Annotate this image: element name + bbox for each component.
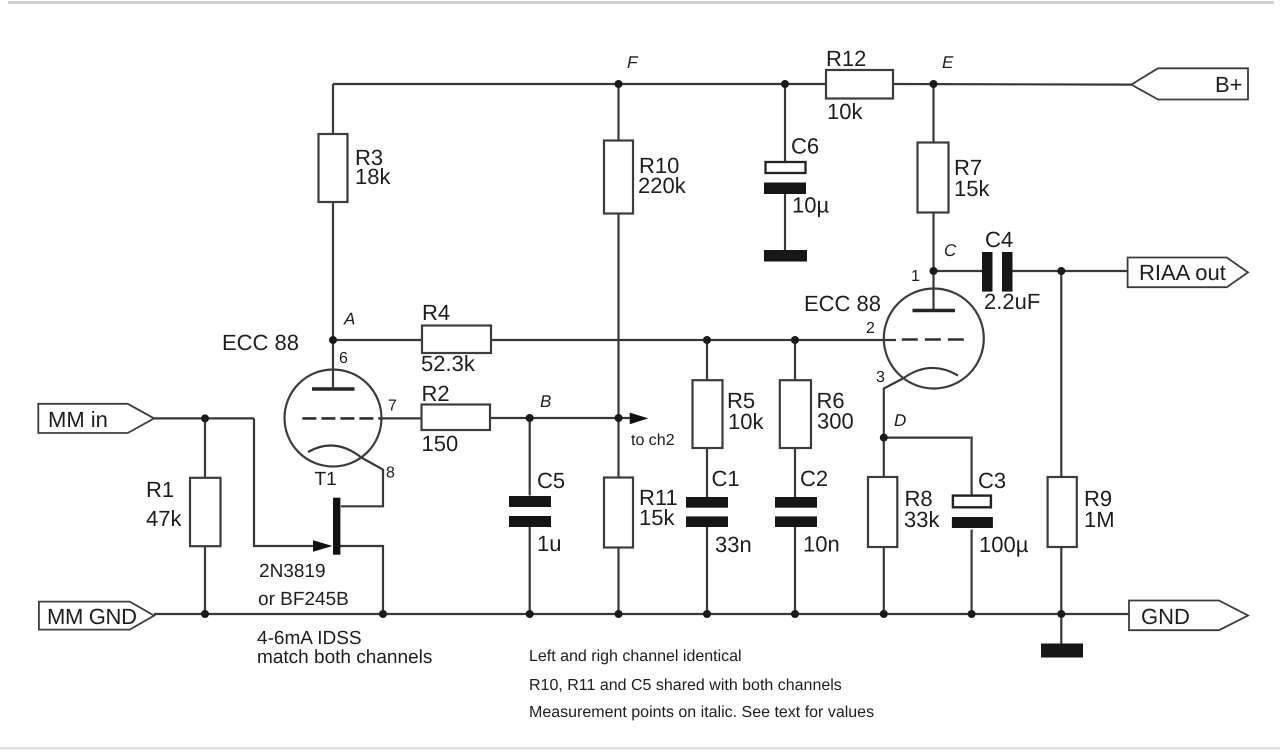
svg-text:2N3819: 2N3819 [259,561,326,582]
label R9 value [1084,486,1115,532]
wire R9 top lead [1060,271,1062,477]
label C6 value [791,134,829,218]
svg-text:Left and righ channel identica: Left and righ channel identical [529,648,742,665]
svg-text:E: E [942,53,954,72]
svg-text:100µ: 100µ [979,532,1029,557]
capacitor C4 [982,252,1013,292]
svg-text:to ch2: to ch2 [631,432,675,449]
connector B+ [1131,68,1248,99]
wire ground stub [1060,614,1062,645]
capacitor C1 [686,497,728,527]
wire R6 to C2 [794,448,796,497]
junction R6 top [791,336,799,344]
svg-text:1: 1 [911,268,920,285]
svg-text:10µ: 10µ [792,193,829,218]
svg-text:52.3k: 52.3k [421,351,476,376]
junction node B [526,414,534,422]
label C5 value [537,468,565,556]
wire R6 top lead [794,340,796,380]
label C3 value [978,468,1029,557]
svg-text:C4: C4 [985,227,1013,252]
resistor R12 [826,70,893,99]
ground symbol bottom right [1041,644,1083,658]
svg-text:R12: R12 [826,46,866,71]
wire C3 to ground rail [970,530,972,615]
wire cathode U2 to node D [884,368,958,438]
svg-text:T1: T1 [315,469,337,490]
wire R7 to node C [932,213,934,272]
wire node C to C4 [934,270,983,272]
svg-text:MM GND: MM GND [47,604,137,629]
svg-text:R4: R4 [422,300,450,325]
junction C2 ground [791,610,799,618]
svg-text:F: F [627,53,639,72]
connector MM in [38,404,154,433]
junction node D [880,434,888,442]
svg-text:or BF245B: or BF245B [258,589,349,610]
junction MM in / R1 [201,414,209,422]
triode U2 envelope [884,289,984,389]
label R4 value [421,300,476,376]
wire R2 to node B [490,417,530,419]
svg-text:2: 2 [866,320,875,337]
wire R1 bottom lead [204,546,206,614]
wire R9 bottom lead [1060,547,1062,614]
resistor R6 [780,380,811,448]
label R3 value [355,145,391,189]
svg-text:15k: 15k [639,505,675,530]
svg-text:ECC 88: ECC 88 [222,330,299,355]
wire node C to tube plate [932,271,934,310]
resistor R9 [1048,477,1077,547]
svg-text:Measurement points on italic.: Measurement points on italic. See text f… [529,704,874,721]
svg-text:150: 150 [422,431,459,456]
wire C6 to ground symbol [784,194,786,250]
anode of U2 [913,309,956,313]
wire node A to R4 [333,339,422,341]
wire R8 to ground rail [883,547,885,614]
wire source T1 to ground rail [340,546,383,614]
capacitor C2 [775,497,817,527]
label C1 value [712,466,752,557]
connector GND [1129,601,1248,631]
svg-text:C: C [944,241,957,260]
label R10 value [638,153,687,198]
svg-text:2.2uF: 2.2uF [984,289,1040,314]
capacitor C6 [764,162,806,194]
svg-text:C5: C5 [537,468,565,493]
svg-text:33n: 33n [715,532,752,557]
wire MM in rail [154,417,254,419]
arrow to ch2 [630,413,649,425]
svg-text:15k: 15k [954,176,990,201]
junction C3 ground [968,610,976,618]
label T1 type [258,561,349,610]
transistor T1 channel bar [333,498,340,555]
svg-text:10n: 10n [803,532,840,557]
svg-text:C6: C6 [791,134,819,159]
wire C2 to ground rail [794,527,796,614]
svg-text:C3: C3 [978,468,1006,493]
wire cathode U1 to drain T1 [308,446,383,507]
anode of U1 [312,387,355,391]
label C4 value [984,227,1040,314]
wire node A to tube plate [332,340,334,388]
wire B+ rail right segment [893,83,1132,86]
svg-text:R1: R1 [146,477,174,502]
capacitor C5 [509,496,551,527]
wire R4 to grid of U2 [491,339,896,341]
connector RIAA out [1128,258,1248,288]
svg-text:6: 6 [339,350,348,367]
wire node D to R8 [883,438,885,477]
svg-text:10k: 10k [728,409,764,434]
resistor R4 [422,326,491,354]
wire B+ rail left segment [333,83,826,85]
junction node C [930,267,938,275]
svg-text:R10, R11 and C5 shared with bo: R10, R11 and C5 shared with both channel… [529,677,842,694]
svg-text:C1: C1 [712,466,740,491]
svg-text:B: B [540,392,551,411]
svg-text:7: 7 [388,398,397,415]
wire C5 to ground rail [529,527,531,614]
svg-text:1M: 1M [1084,507,1115,532]
wire R10 to node B [617,214,619,419]
wire F to R10 [617,84,619,141]
svg-text:3: 3 [876,369,885,386]
svg-text:A: A [343,310,355,329]
capacitor C3 [952,496,993,528]
ground symbol under C6 [764,250,807,262]
wire R1 top lead [204,418,206,477]
wire C1 to ground rail [706,527,708,614]
svg-text:GND: GND [1141,604,1190,629]
resistor R10 [604,141,633,214]
label R12 value [826,46,866,124]
resistor R11 [604,478,633,548]
junction node F [615,80,623,88]
svg-text:RIAA out: RIAA out [1139,260,1226,285]
junction R8 ground [880,610,888,618]
wire node B to R11 [617,418,619,478]
wire ground rail [154,613,1129,615]
junction RIAA branch [1057,267,1065,275]
label R8 value [904,486,940,532]
junction T1 source ground [379,610,387,618]
svg-text:33k: 33k [904,507,940,532]
junction C1 ground [703,610,711,618]
svg-text:ECC 88: ECC 88 [804,291,881,316]
label R6 value [817,388,854,434]
junction R5 top [703,336,711,344]
wire E to R7 [932,84,934,143]
wire R5 to C1 [706,448,708,497]
junction node A [329,336,337,344]
wire R3 top lead [332,84,334,134]
svg-text:220k: 220k [638,173,687,198]
triode U1 envelope [285,370,382,467]
resistor R3 [319,134,348,202]
resistor R8 [868,477,897,547]
grid of U2 (dashed) [902,338,964,341]
wire gate of T1 [254,418,315,546]
svg-text:18k: 18k [355,164,391,189]
junction R9 ground [1057,610,1065,618]
svg-text:match both channels: match both channels [257,647,432,668]
svg-text:8: 8 [386,465,395,482]
junction node E [930,80,938,88]
resistor R2 [422,405,491,431]
junction C6 top [781,80,789,88]
label R11 value [639,485,678,530]
label T1 selection note [257,628,432,668]
wire R5 top lead [706,340,708,380]
svg-text:10k: 10k [827,99,863,124]
wire node B to ch2 arrow [530,417,631,419]
junction R1 ground [201,610,209,618]
junction R11 / to ch2 [615,414,623,422]
wire node B to C5 [529,418,531,496]
transistor T1 gate arrow [313,540,333,551]
wire R11 to ground rail [617,548,619,615]
label R5 value [727,388,764,434]
svg-text:47k: 47k [146,506,182,531]
label C2 value [800,466,840,557]
wire C4 to RIAA out [1012,270,1128,272]
svg-text:D: D [894,411,906,430]
resistor R7 [918,143,949,213]
resistor R5 [693,380,723,448]
wire R3 bottom to node A [332,202,334,340]
svg-text:B+: B+ [1215,72,1243,97]
svg-text:300: 300 [817,409,854,434]
wire C6 drop from rail [784,84,786,161]
wire grid of U1 to R2 [382,417,422,419]
resistor R1 [190,478,221,546]
label R1 value [146,477,182,531]
svg-text:C2: C2 [800,466,828,491]
svg-text:1u: 1u [537,531,561,556]
label R2 value [422,381,459,456]
wire node D to C3 [884,438,972,496]
junction C5 ground [526,610,534,618]
label R7 value [954,155,990,201]
svg-text:MM in: MM in [48,407,108,432]
junction R11 ground [615,610,623,618]
svg-text:4-6mA IDSS: 4-6mA IDSS [257,628,362,649]
svg-text:R2: R2 [422,381,450,406]
connector MM GND [39,602,154,630]
grid of U1 (dashed) [302,417,382,420]
